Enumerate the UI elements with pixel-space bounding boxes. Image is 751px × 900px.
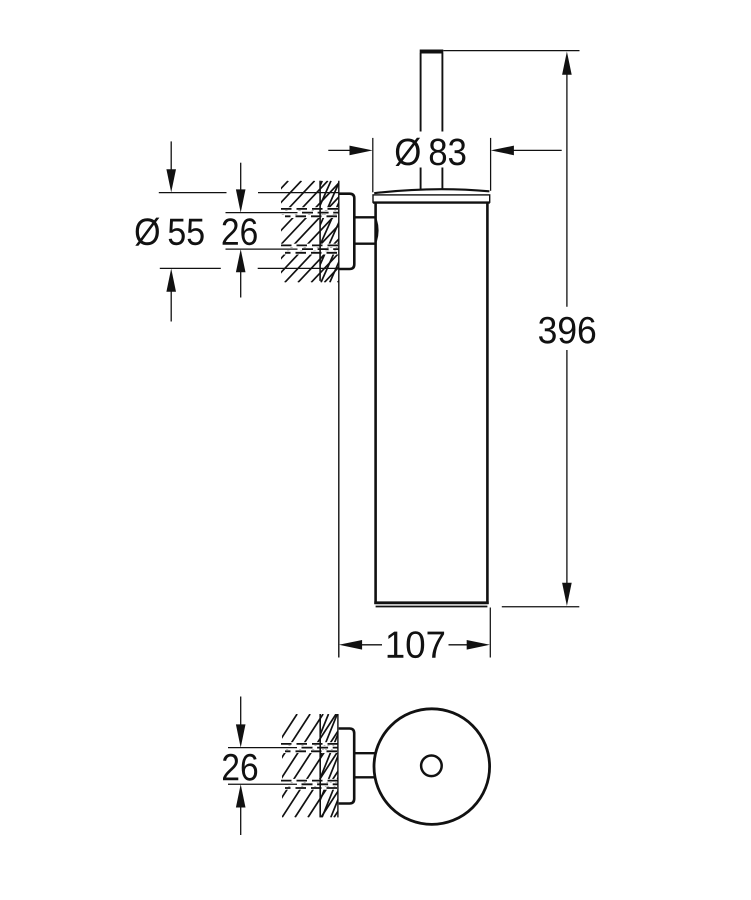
dim 396 line with arrows <box>562 52 572 75</box>
lid rim <box>373 195 490 202</box>
dim text 396 <box>539 317 595 344</box>
screw hole 2 upper edge dashed (bottom view) <box>281 780 338 782</box>
bottom view outer circle <box>374 709 490 825</box>
tile hatching steep (upper) <box>277 181 384 283</box>
dim text O55 <box>135 218 203 246</box>
container body left edge <box>374 203 377 604</box>
dim O83 left extension line <box>372 138 374 192</box>
dim 107 right arrow <box>449 644 468 646</box>
dim text O83 <box>396 138 466 166</box>
dim 107 right extension line <box>489 608 491 658</box>
dim 26 top arrow (upper) <box>240 163 242 191</box>
screw hole 1 lower edge dashed (bottom view) <box>285 750 338 752</box>
screw hole 1 lower edge dashed (upper) <box>285 215 339 217</box>
dim 396 bottom extension line <box>502 606 580 608</box>
screw hole 2 upper edge dashed (upper) <box>281 244 339 246</box>
screw hole 1 center line solid (bottom view) <box>228 747 297 749</box>
tile hatching steep (bottom view) <box>278 714 381 817</box>
dim text 107 <box>388 631 445 658</box>
brush handle rod left line <box>420 53 422 189</box>
wall hatching 45deg (upper) <box>192 181 433 283</box>
brush handle top cap <box>420 50 444 54</box>
brush handle rod right line <box>441 53 443 189</box>
screw hole 1 upper edge dashed (upper) <box>281 208 339 210</box>
dim O83 left arrow <box>328 149 351 151</box>
dim text 26 (upper) <box>223 218 257 245</box>
screw hole 2 lower edge dashed (bottom view) <box>285 787 338 789</box>
dim O55 top extension line <box>159 192 339 194</box>
screw hole 1 center line dashed (upper) <box>302 212 339 214</box>
wall plate (bottom view) <box>339 729 355 804</box>
dim O55 bottom arrow <box>170 289 172 322</box>
lid dome arc <box>374 189 489 193</box>
screw hole 2 center line solid (bottom view) <box>228 783 297 785</box>
mounting arm top line <box>354 216 375 218</box>
dim 107 left arrow <box>339 640 362 650</box>
bottom view center hole circle <box>421 756 442 777</box>
wall hatching (bottom view) <box>230 714 401 817</box>
dim 26 bottom arrow (bottom view) <box>240 806 242 835</box>
screw hole 1 center line solid (upper) <box>226 212 298 214</box>
container body bottom edge <box>374 601 488 604</box>
wall plate (side view) <box>339 194 354 269</box>
container body bottom rim line <box>376 606 488 608</box>
screw hole 2 center line dashed (bottom view) <box>302 783 338 785</box>
mounting arm end bulge <box>376 220 378 242</box>
screw hole 1 upper edge dashed (bottom view) <box>281 743 338 745</box>
dim 26 bottom arrow (upper) <box>240 271 242 298</box>
screw hole 2 lower edge dashed (upper) <box>285 252 339 254</box>
screw hole 1 center line dashed (bottom view) <box>302 747 338 749</box>
wall surface line / 107 left extension <box>338 181 340 658</box>
dim 396 top extension line <box>443 50 579 52</box>
dim O83 right arrow <box>513 149 562 151</box>
container body right edge <box>486 203 489 604</box>
dim O55 top arrow <box>170 141 172 172</box>
dim O83 right extension line <box>490 138 492 191</box>
screw hole 2 center line solid (upper) <box>226 248 298 250</box>
mounting arm bottom line (bottom view) <box>354 776 375 778</box>
screw hole 2 center line dashed (upper) <box>302 248 339 250</box>
wall surface line (bottom view) <box>337 714 339 817</box>
wall inner line (upper) <box>319 181 321 281</box>
dim text 26 (bottom view) <box>223 754 257 781</box>
mounting arm bottom line <box>354 242 375 244</box>
dim 26 top arrow (bottom view) <box>240 697 242 727</box>
dim O55 bottom extension line <box>160 267 339 269</box>
mounting arm top line (bottom view) <box>354 752 375 754</box>
wall inner line (bottom view) <box>319 714 321 817</box>
